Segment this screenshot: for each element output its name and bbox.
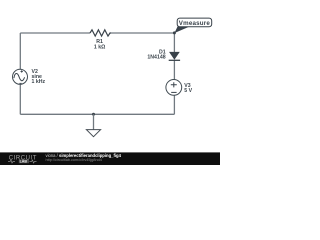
value 5 V [184,88,192,94]
wire right vertical [173,33,175,114]
wire top-left horizontal [20,32,90,34]
value sine [32,74,42,80]
value 1N4148 [147,54,165,60]
label R1 [96,39,103,45]
ground [86,114,100,136]
probe flag Vmeasure [175,18,212,33]
svg-text:LAB: LAB [20,160,28,164]
svg-text:http://circuitlab.com/c/bv45jg: http://circuitlab.com/c/bv45jg8nd4 [46,158,102,162]
resistor R1 [90,30,111,36]
value 1 kHz [32,79,46,85]
voltage source V2 (sine) [13,69,28,84]
label V3 [184,83,190,89]
node junction ground [92,113,95,116]
node junction top right [173,31,176,34]
diode D1 [169,52,180,60]
label V2 [32,69,38,75]
svg-text:5 V: 5 V [184,88,192,94]
svg-text:1 kΩ: 1 kΩ [94,45,105,51]
wire top-right horizontal [111,32,174,34]
svg-text:Vmeasure: Vmeasure [179,20,211,27]
voltage source V3 (DC) [166,80,182,96]
wire bottom horizontal [20,113,174,115]
value 1 kΩ [94,45,105,51]
watermark bar [0,152,220,165]
wire left vertical [19,33,21,114]
label D1 [159,49,166,55]
svg-text:1 kHz: 1 kHz [32,79,46,85]
svg-text:1N4148: 1N4148 [147,54,165,60]
